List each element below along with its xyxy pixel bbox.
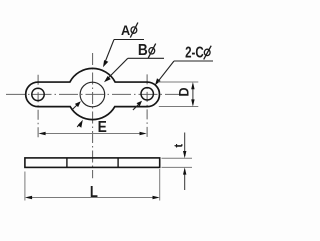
svg-text:t: t <box>174 144 186 148</box>
dim t extension lines <box>162 158 193 167</box>
centerline vertical left hole <box>37 75 39 139</box>
hole center A <box>80 82 105 107</box>
centerline vertical right hole <box>146 74 148 137</box>
side view plate <box>25 158 160 168</box>
side view boss projection lines <box>67 158 118 168</box>
far arrow A <box>77 123 80 127</box>
centerline horizontal <box>6 93 180 95</box>
dim D line <box>192 84 194 105</box>
dim L extension lines <box>25 169 160 201</box>
dim E line <box>41 133 144 135</box>
dim t arrows <box>184 133 186 157</box>
dim D extension lines <box>158 82 198 107</box>
svg-text:B: B <box>138 42 148 59</box>
dim L line <box>27 197 158 199</box>
svg-text:E: E <box>98 119 107 136</box>
leader A <box>105 40 115 64</box>
svg-text:A: A <box>121 22 130 38</box>
leader B <box>107 58 128 79</box>
svg-text:L: L <box>90 184 98 201</box>
hole right C <box>141 88 153 100</box>
centerline vertical boss <box>92 53 94 178</box>
top view outline <box>26 68 160 119</box>
leader 2-C <box>158 61 174 82</box>
far arrow B <box>72 105 77 110</box>
svg-text:2-C: 2-C <box>185 44 204 61</box>
far arrow 2-C <box>133 105 138 110</box>
hole left C <box>32 88 44 100</box>
svg-text:D: D <box>176 87 191 96</box>
